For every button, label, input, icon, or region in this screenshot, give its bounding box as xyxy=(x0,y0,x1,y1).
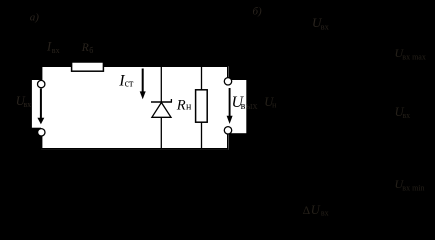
svg-text:вх mах: вх mах xyxy=(402,53,426,62)
arrow U_vyh (output voltage, down) shaft xyxy=(229,88,231,117)
svg-text:ст: ст xyxy=(125,79,134,90)
white tab left (input port label area) xyxy=(32,80,42,128)
svg-text:вх: вх xyxy=(321,209,329,218)
wire: right vertical upper segment xyxy=(227,66,229,78)
svg-text:U: U xyxy=(311,203,321,217)
wire: left vertical upper segment xyxy=(41,66,43,81)
terminal: output top xyxy=(224,78,231,85)
zener diode VD cathode bar xyxy=(151,101,172,103)
wire: load branch vertical (above Rn) xyxy=(201,66,203,90)
resistor R_n body xyxy=(196,90,208,122)
svg-text:R: R xyxy=(81,42,89,54)
arrow I_st (zener current, down) shaft xyxy=(142,69,144,93)
terminal: input bottom xyxy=(38,129,45,136)
wire: top horizontal xyxy=(41,65,228,67)
wire: load branch vertical (below Rn) xyxy=(201,122,203,149)
white drawing area: main rectangle of circuit interior xyxy=(41,66,229,150)
svg-text:вх min: вх min xyxy=(402,183,424,192)
svg-text:вх: вх xyxy=(402,111,410,120)
white tab right (U_vyh label area) xyxy=(229,80,247,133)
svg-text:н: н xyxy=(272,101,277,110)
terminal: input top xyxy=(38,80,45,87)
arrow U_vh (input voltage, down) shaft xyxy=(40,89,42,119)
svg-text:а): а) xyxy=(30,11,40,23)
svg-text:н: н xyxy=(186,102,192,113)
arrow U_vyh head xyxy=(227,116,233,124)
arrow U_vh head xyxy=(37,118,44,125)
zener diode triangle (anode, pointing up) xyxy=(152,103,171,118)
zener diode cathode hook (right end, up) xyxy=(170,99,172,102)
wire: zener branch vertical xyxy=(160,66,162,149)
terminal: output bottom xyxy=(224,127,231,134)
resistor R_b body xyxy=(72,62,104,71)
svg-text:Δ: Δ xyxy=(303,205,310,217)
arrow I_st head xyxy=(140,91,146,99)
svg-text:ых: ых xyxy=(246,101,258,112)
wire: left vertical lower segment xyxy=(41,136,43,150)
svg-text:б): б) xyxy=(253,6,263,18)
wire: right vertical lower segment xyxy=(227,134,229,150)
svg-text:R: R xyxy=(176,98,186,114)
wire: bottom horizontal xyxy=(41,148,228,150)
svg-text:вх: вх xyxy=(321,21,330,31)
svg-text:вх: вх xyxy=(52,46,60,55)
svg-text:вх: вх xyxy=(23,100,31,109)
svg-text:б: б xyxy=(89,46,93,55)
